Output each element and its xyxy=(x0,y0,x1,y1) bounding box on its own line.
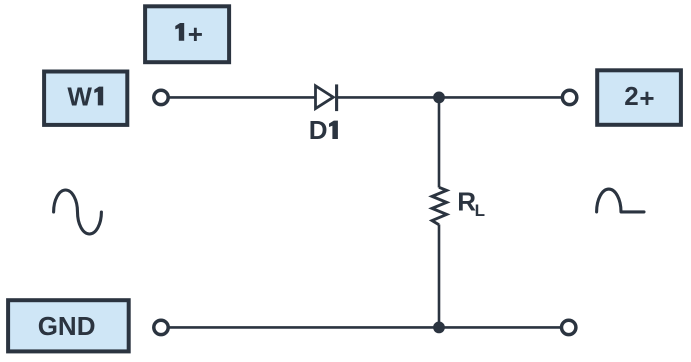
diode D1 cathode bar xyxy=(335,84,338,111)
label box 2+ xyxy=(597,70,681,125)
terminal: 2- open circle xyxy=(562,320,576,334)
svg-text:L: L xyxy=(475,201,485,220)
label box 1+ xyxy=(145,6,229,62)
svg-text:GND: GND xyxy=(38,311,96,341)
svg-text:R: R xyxy=(457,187,476,217)
diode D1 symbol (anode triangle) xyxy=(316,86,334,109)
wire: top rail right segment (diode cathode to 2+ terminal) xyxy=(337,96,562,99)
label box W1 xyxy=(44,72,127,125)
wire: top rail left segment (terminal W1/1+ to diode anode) xyxy=(169,96,314,99)
terminal: GND open circle xyxy=(154,320,168,334)
wire: bottom rail (GND terminal to 2- terminal) xyxy=(169,326,560,329)
resistor RL zigzag xyxy=(432,187,447,225)
svg-text:+: + xyxy=(639,83,654,113)
terminal: 2+ open circle xyxy=(562,90,576,104)
svg-text:+: + xyxy=(188,19,203,49)
svg-text:2: 2 xyxy=(624,81,638,111)
wire: vertical branch lower stub (resistor to bottom node) xyxy=(438,225,441,328)
output half-wave rectified waveform symbol xyxy=(597,189,644,212)
node: bottom junction dot xyxy=(433,322,445,334)
svg-text:W: W xyxy=(67,81,92,111)
wire: vertical branch upper stub (top node to resistor) xyxy=(438,97,441,187)
node: top junction dot xyxy=(433,92,445,104)
input sine waveform symbol xyxy=(54,190,102,234)
terminal: W1 open circle xyxy=(154,90,168,104)
svg-text:D: D xyxy=(309,115,328,145)
label box GND xyxy=(8,300,129,351)
